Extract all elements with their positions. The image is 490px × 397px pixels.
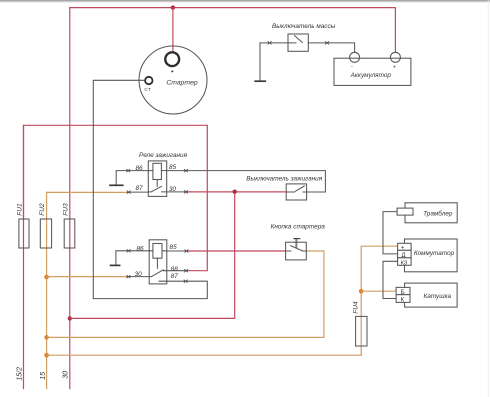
svg-text:Трамблер: Трамблер [423,209,453,217]
svg-text:15: 15 [40,372,47,380]
svg-text:Стартер: Стартер [166,80,197,87]
node pin30 switch junction [233,190,237,194]
svg-text:Выключатель зажигания: Выключатель зажигания [246,175,322,182]
fuse FU2 [40,219,51,248]
pin label 88 K2 [171,266,179,273]
relay K2 [149,240,167,284]
node net30 bottom junction [68,316,72,320]
svg-text:-: - [351,64,353,70]
wire K2 pin85 stub [167,250,188,252]
ground relay K1 [110,184,123,186]
battery GB1 [334,52,411,85]
wire K1 pin87 stub [127,191,148,193]
fuse FU2 label [39,203,46,216]
svg-text:Катушка: Катушка [424,293,452,300]
svg-text:СТ: СТ [144,87,151,92]
mass switch QS1 [288,34,308,51]
wire FU1 vertical 15/2 [23,125,25,388]
svg-text:FU3: FU3 [63,203,70,216]
wire starter button to net15 [47,251,324,337]
pin label 87 K1 [135,185,143,192]
fuse FU1 [19,219,29,248]
wire FU1 branch to relay K2 pin 88 [24,125,208,270]
wire net30 vertical through FU3 [69,8,71,389]
wire starter feed [172,8,174,53]
frame top edge [0,0,490,3]
svg-text:15/2: 15/2 [17,367,24,381]
wire battery + feed [394,8,396,53]
connector X mass switch right [326,42,329,45]
svg-text:85: 85 [169,164,177,171]
wire FU2 to relay K1 pin87 [47,191,128,193]
starter button label [271,223,326,230]
connector X K1 pin30 [184,191,187,194]
pin label 86 K2 [136,245,144,252]
connector X K2 pin85 [185,250,188,253]
net label 30 [63,371,70,379]
wire net15 vertical through FU2 [46,192,48,388]
wire K2 pin30 stub [127,276,149,278]
svg-text:87: 87 [171,273,179,280]
commutator terminal D [398,250,412,259]
svg-text:FU4: FU4 [353,301,360,314]
connector X K2 pin87 [184,280,187,283]
connector X K1 pin86 [127,169,130,172]
commutator terminal KZ [398,258,412,267]
svg-text:К: К [400,296,404,303]
svg-text:88: 88 [171,266,179,273]
connector X K1 pin85 [184,169,187,172]
pin label 86 K1 [135,165,143,172]
ignition switch SA1 [286,184,306,200]
starter button SB1 [286,239,307,260]
connector X K1 pin87 [127,191,130,194]
wire to coil terminal B [361,290,396,292]
wire ignition switch drop [234,192,236,319]
fuse FU1 label [16,203,23,216]
ignition switch label [246,175,322,182]
fuse FU3 label [63,203,70,216]
wire relay K2 pin85 to button (red) [188,250,286,252]
ground relay K2 [111,264,120,266]
wire K2 pin86 to ground [116,251,149,265]
pin label 85 K2 [170,244,178,251]
wire net15 to relay K2 pin30 [47,276,127,278]
pin label 87 K2 [171,273,179,280]
ground mass switch [255,80,265,82]
node net15 relay2 junction [44,275,49,280]
net label 15/2 [17,367,24,381]
net label 15 [40,372,47,380]
svg-text:КЗ: КЗ [401,260,408,266]
wire starter CT to relay K2 pin87 [93,80,207,298]
svg-text:Коммутатор: Коммутатор [414,250,455,257]
svg-text:FU1: FU1 [16,203,23,216]
commutator box [405,239,458,272]
relay K1 label [139,152,188,159]
mass switch label [272,23,336,30]
node coil B junction [359,289,364,294]
connector X mass switch left [268,42,271,45]
wire relay K1 pin30 to ignition switch [188,191,287,193]
commutator terminal plus [398,243,412,251]
wire net30 top bus (red, battery+ to FU3) [70,7,396,9]
svg-text:Реле зажигания: Реле зажигания [139,152,188,159]
svg-text:+: + [393,65,396,71]
svg-text:Аккумулятор: Аккумулятор [350,72,392,79]
wire K1 pin85 to ignition switch [167,171,326,192]
distributor connector [397,208,413,215]
node net15 button junction [44,335,49,340]
wire distributor to commutator D [383,212,398,254]
starter M1 [139,46,207,114]
wire mass switch to ground [260,43,288,81]
node net15 FU4 junction [44,353,49,358]
svg-text:87: 87 [135,185,143,192]
ignition coil box [405,283,458,307]
frame right edge [487,0,490,397]
pin label 85 K1 [169,164,177,171]
svg-text:Кнопка стартера: Кнопка стартера [271,223,326,230]
wire net15 to FU4 [47,354,362,356]
wire commutator KZ to coil K [383,261,398,298]
wire K1 pin86 to ground [116,171,148,185]
node starter feed junction [171,5,175,9]
connector X K2 pin30 [127,275,130,278]
connector X K2 pin86 [127,250,130,253]
wire K1 pin30 stub [167,191,188,193]
relay K1 [148,161,166,197]
svg-text:85: 85 [170,244,178,251]
distributor box [405,203,457,223]
fuse FU3 [64,219,75,248]
pin label 30 K1 [169,186,177,193]
svg-text:Выключатель массы: Выключатель массы [272,23,336,30]
coil terminal K [396,295,410,304]
svg-text:30: 30 [63,371,70,379]
coil terminal B [396,287,410,296]
fuse FU4 label [353,301,360,314]
connector X K2 pin88 [185,269,188,272]
wire K2 pin88 stub [167,270,188,272]
wire FU4 vertical to commutator plus [361,246,397,355]
svg-text:FU2: FU2 [39,203,46,216]
pin label 30 K2 [135,271,143,278]
wire mass switch to battery minus [308,43,354,53]
fuse FU4 [356,316,367,346]
wire net30 bottom horizontal [70,317,235,319]
